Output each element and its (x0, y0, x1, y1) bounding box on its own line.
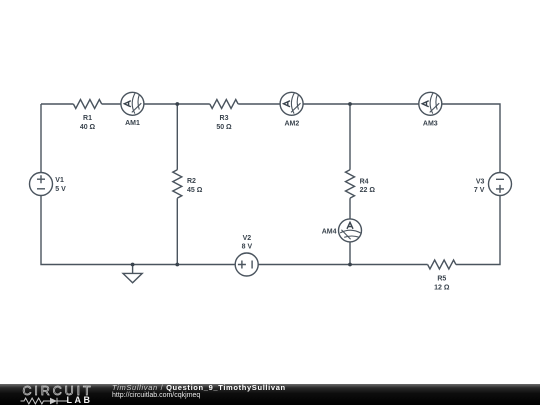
CircuitLab logo resistor + diode glyph (20, 396, 70, 406)
junction node at R4 top (348, 102, 352, 106)
junction node at AM4 bottom (348, 263, 352, 267)
resistor R2 (173, 170, 182, 198)
junction node at ground (131, 263, 135, 267)
wire AM1 to R3 (144, 103, 210, 105)
svg-text:40 Ω: 40 Ω (80, 124, 96, 131)
footer black bar (0, 384, 540, 406)
wire V2 to R5 (258, 264, 427, 266)
svg-text:V3: V3 (476, 178, 485, 185)
wire top-left horizontal (41, 103, 73, 105)
svg-text:AM2: AM2 (285, 120, 300, 127)
svg-text:V2: V2 (243, 235, 252, 242)
resistor R1 (73, 100, 101, 109)
ammeter AM2 (280, 92, 303, 115)
svg-text:AM4: AM4 (322, 228, 337, 235)
voltage source V3 (489, 173, 512, 196)
voltage source V2 (235, 253, 258, 276)
svg-text:7 V: 7 V (474, 187, 485, 194)
wire R2 to bottom wire (176, 198, 178, 264)
wire junction to R4 (349, 104, 351, 170)
ammeter AM1 dial (124, 93, 141, 114)
svg-text:8 V: 8 V (242, 244, 253, 251)
wire AM4 to bottom wire (349, 242, 351, 265)
ammeter AM3 dial (422, 93, 439, 114)
svg-text:22 Ω: 22 Ω (360, 187, 376, 194)
junction node at R2 top (175, 102, 179, 106)
ammeter AM1 (121, 92, 144, 115)
CircuitLab logo CIRCUIT (23, 384, 94, 398)
svg-text:45 Ω: 45 Ω (187, 187, 203, 194)
svg-text:5 V: 5 V (55, 186, 66, 193)
junction node at R2 bottom (175, 263, 179, 267)
CircuitLab logo LAB (67, 395, 93, 405)
svg-text:AM1: AM1 (125, 120, 140, 127)
svg-text:R5: R5 (437, 276, 446, 283)
wire R3 to AM2 (238, 103, 280, 105)
footer url line (112, 392, 200, 399)
svg-text:R1: R1 (83, 115, 92, 122)
ammeter AM4 dial (340, 222, 361, 239)
svg-text:AM3: AM3 (423, 120, 438, 127)
wire R4 to AM4 (349, 198, 351, 219)
wire AM3 to top-right corner down to V3 (442, 104, 500, 173)
wire left vertical to V1 (40, 104, 42, 173)
ammeter AM4 (339, 219, 362, 242)
wire junction to R2 (176, 104, 178, 170)
ammeter AM3 (419, 92, 442, 115)
resistor R3 (210, 100, 238, 109)
svg-text:50 Ω: 50 Ω (216, 124, 232, 131)
wire R1 to AM1 (102, 103, 121, 105)
footer title line (112, 383, 286, 392)
wire V1 to bottom-left corner to V2 (41, 196, 235, 265)
wire AM2 to AM3 (303, 103, 419, 105)
svg-text:V1: V1 (55, 177, 64, 184)
resistor R4 (346, 170, 355, 198)
svg-text:12 Ω: 12 Ω (434, 285, 450, 292)
resistor R5 (428, 260, 456, 269)
voltage source V1 (30, 173, 53, 196)
ground (123, 265, 142, 283)
svg-text:R2: R2 (187, 178, 196, 185)
svg-text:R4: R4 (360, 178, 369, 185)
wire R5 to bottom-right corner up to V3 (456, 196, 500, 265)
svg-text:R3: R3 (220, 115, 229, 122)
ammeter AM2 dial (284, 93, 301, 114)
